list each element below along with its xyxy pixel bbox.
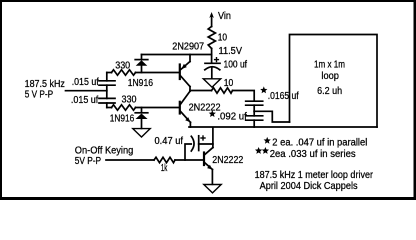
transistor Q1 2N2907: [180, 55, 190, 92]
svg-text:11.5V: 11.5V: [219, 46, 243, 57]
capacitor C3 0.47uf: [185, 136, 213, 160]
capacitor C1 .015uf top: [99, 73, 115, 86]
svg-text:1N916: 1N916: [128, 78, 154, 89]
svg-text:loop: loop: [321, 71, 339, 82]
svg-text:2N2222: 2N2222: [189, 102, 221, 113]
wire bottom rail: [189, 126, 377, 128]
diode D2 1N916 bottom stubs: [135, 108, 148, 129]
svg-text:1N916: 1N916: [110, 114, 135, 125]
wire rail to cap: [211, 49, 213, 63]
ground G3 keyer: [204, 185, 221, 193]
svg-text:5 V P-P: 5 V P-P: [25, 89, 54, 100]
svg-text:On-Off Keying: On-Off Keying: [75, 146, 134, 157]
Q3 emitter arrow: [207, 165, 212, 170]
svg-text:.092 uf: .092 uf: [217, 112, 247, 123]
wire tap to loop: [254, 111, 289, 122]
capacitor C5 .0165uf: [246, 101, 263, 111]
svg-text:Vin: Vin: [218, 11, 231, 22]
svg-text:1m x 1m: 1m x 1m: [314, 59, 345, 70]
capacitor C4 100uf: [205, 63, 220, 78]
stars S4 note2: [255, 147, 262, 154]
svg-text:330: 330: [115, 61, 130, 72]
svg-text:1k: 1k: [161, 163, 168, 174]
svg-text:0.47 uf: 0.47 uf: [155, 136, 184, 147]
plus sign C3: [200, 135, 205, 140]
resistor R3 330 bottom: [112, 105, 136, 110]
resistor R2 330 top: [112, 70, 136, 75]
svg-text:2N2222: 2N2222: [212, 155, 243, 166]
svg-text:5V P-P: 5V P-P: [75, 156, 102, 167]
wire keying input: [106, 159, 154, 161]
transistor Q2 2N2222 upper: [180, 91, 191, 127]
resistor R1 10 vertical: [208, 27, 215, 49]
wire input: [66, 90, 107, 92]
transistor Q3 2N2222 keyer: [204, 127, 213, 184]
svg-text:10: 10: [224, 78, 234, 89]
svg-text:.015 uf: .015 uf: [71, 95, 99, 106]
diode D1 1N916 top stubs: [135, 55, 148, 73]
ground G2 100uf: [203, 79, 220, 87]
svg-text:2N2907: 2N2907: [172, 41, 204, 52]
svg-text:10: 10: [218, 33, 228, 44]
Q1 emitter arrow: [181, 64, 187, 69]
resistor R4 10 horizontal: [212, 88, 233, 93]
wire top rail: [142, 54, 212, 56]
svg-text:187.5 kHz 1 meter loop driver: 187.5 kHz 1 meter loop driver: [255, 170, 374, 181]
capacitor C2 .015uf bottom: [99, 98, 115, 107]
svg-text:6.2 uh: 6.2 uh: [317, 86, 342, 97]
wire to Q1 base: [136, 72, 180, 74]
wire 10 resistor run: [190, 90, 212, 92]
ground G1 diodes: [133, 129, 150, 137]
svg-text:2ea .033 uf in series: 2ea .033 uf in series: [270, 149, 356, 160]
wire to caps corner: [233, 91, 255, 101]
star S2 .092: [209, 110, 216, 117]
resistor R5 1k: [154, 157, 175, 162]
Vin arrow head: [209, 12, 214, 18]
wire Vin stem: [211, 15, 213, 27]
wire cap column: [106, 85, 108, 98]
star S3 note1: [264, 137, 271, 144]
star S1 .0165: [260, 86, 267, 93]
wire top branch: [107, 72, 112, 74]
capacitor C6 .092uf: [246, 111, 263, 127]
svg-text:2 ea. .047 uf in parallel: 2 ea. .047 uf in parallel: [272, 138, 367, 149]
loop box: [290, 35, 378, 128]
svg-text:April 2004 Dick Cappels: April 2004 Dick Cappels: [260, 181, 358, 192]
wire bottom branch: [107, 107, 112, 109]
wire to Q2 base: [136, 107, 180, 109]
wire to Q3 base: [175, 159, 203, 161]
diode D2 triangle: [136, 114, 148, 120]
svg-text:100 uf: 100 uf: [224, 59, 248, 70]
Q2 emitter arrow: [185, 117, 190, 122]
svg-text:.015 uf: .015 uf: [72, 77, 99, 88]
svg-text:.0165 uf: .0165 uf: [268, 91, 299, 102]
svg-text:330: 330: [122, 95, 137, 106]
diode D1 triangle: [136, 60, 148, 65]
plus sign C4: [214, 57, 219, 62]
